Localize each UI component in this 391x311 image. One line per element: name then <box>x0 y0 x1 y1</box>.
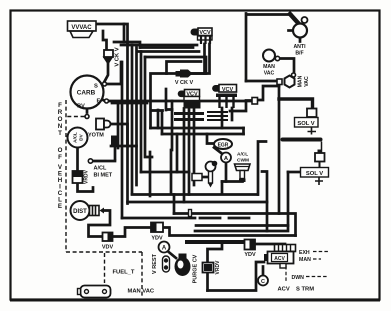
valve A/CL DV <box>68 128 88 148</box>
wire h y103 <box>112 102 147 105</box>
valve VRDV 2 <box>203 260 222 275</box>
check valve V CK V 2 <box>175 70 194 87</box>
svg-text:ACV: ACV <box>274 256 285 262</box>
restrictor V REST <box>152 253 170 274</box>
wire bundle v x118 <box>117 103 120 148</box>
wire vrdv2 top <box>208 243 223 263</box>
wire long h y194 <box>132 193 258 196</box>
svg-text:A/CL: A/CL <box>94 166 107 172</box>
fuel tank <box>78 286 111 298</box>
wire bar y110 b <box>168 108 173 111</box>
svg-text:VAC: VAC <box>304 76 310 87</box>
distributor DIST <box>71 201 105 220</box>
wire v x150 <box>149 152 152 196</box>
vacuum source MAN VAC 1 <box>263 50 280 77</box>
wire VVVAC down to check valve <box>103 31 107 50</box>
wire v x162 riser <box>161 112 164 134</box>
wire bundle v x141 <box>140 52 143 173</box>
svg-text:F: F <box>58 102 62 109</box>
label box VVVAC <box>68 21 97 38</box>
wire fitting drop <box>114 145 117 159</box>
fitting black tee <box>111 136 119 146</box>
valve VCV 2 <box>212 85 237 109</box>
svg-text:YOTM: YOTM <box>88 133 104 139</box>
label DWN STRM <box>278 275 315 293</box>
valve VCV 3 <box>174 90 204 120</box>
svg-text:VVVAC: VVVAC <box>71 25 92 31</box>
svg-text:EXH: EXH <box>299 250 310 256</box>
svg-text:VDV: VDV <box>102 245 114 251</box>
wire h y128 cwm supply <box>151 127 244 130</box>
wire h y57 to cv2 riser <box>145 57 206 74</box>
node S <box>103 82 107 86</box>
wire trunk x246 <box>246 14 291 82</box>
svg-text:A/CL: A/CL <box>73 132 78 143</box>
dashed exh man lines <box>286 252 330 284</box>
wire carb S stub <box>100 85 104 87</box>
svg-text:O: O <box>58 116 63 123</box>
wire elbow below fitting <box>230 101 252 112</box>
svg-text:A: A <box>162 246 167 252</box>
svg-text:SOL V: SOL V <box>297 121 314 127</box>
small tick rect <box>189 210 192 217</box>
svg-text:DIST: DIST <box>73 209 87 215</box>
svg-text:CARB: CARB <box>77 90 96 97</box>
wire h y134 egr supply <box>162 133 244 136</box>
egr valve EGR <box>214 139 232 149</box>
wire check valve to S node <box>105 64 109 82</box>
svg-text:EGR: EGR <box>218 142 229 148</box>
wire long h y225.5 <box>196 224 288 227</box>
valve YDV 2 <box>244 240 256 259</box>
dashed front-of-vehicle boundary <box>66 100 142 296</box>
svg-text:PURGE CV: PURGE CV <box>193 254 199 283</box>
wire v x184 <box>183 109 186 203</box>
wire vrdv1 bottom <box>78 183 94 192</box>
wire bundle v x132 <box>131 45 134 194</box>
svg-text:VRDV: VRDV <box>215 260 221 275</box>
wire h y181 <box>222 180 243 183</box>
node E <box>105 99 109 103</box>
wire nested left v x171 <box>170 150 173 194</box>
svg-text:MAN VAC: MAN VAC <box>128 289 155 295</box>
wire drop x124 <box>123 24 126 42</box>
label EXH MAN <box>299 250 311 263</box>
valve VDV 1 <box>102 233 114 251</box>
node BV <box>85 115 89 119</box>
wire long h y231 drain <box>195 172 288 231</box>
svg-text:E: E <box>97 99 101 105</box>
air control valve ACV <box>264 245 296 269</box>
wire long h y213.5 big U <box>174 214 296 236</box>
svg-text:BI MET: BI MET <box>94 173 113 179</box>
wire bar y110 a <box>152 109 163 112</box>
wire A to purge diagonal <box>168 251 177 258</box>
wire v x194 <box>193 109 196 186</box>
wire bottom run to acv <box>208 262 265 291</box>
svg-text:E: E <box>58 203 62 210</box>
wire anti bf diagonal <box>290 14 299 24</box>
carburetor CARB <box>71 76 104 110</box>
wire vcv1 prong down a <box>203 44 206 74</box>
wire h y218 left <box>122 217 195 220</box>
wire v x172 <box>171 101 174 150</box>
svg-text:MAN: MAN <box>299 257 311 263</box>
front of vehicle vertical text <box>58 102 63 210</box>
svg-text:YDV: YDV <box>151 236 163 242</box>
svg-text:FUEL_T: FUEL_T <box>113 270 135 276</box>
svg-text:S: S <box>94 84 98 90</box>
wire vcv2 prong down a <box>221 108 224 128</box>
wire carb E long manifold line <box>109 100 252 103</box>
wire bundle v x127.5 <box>126 45 129 204</box>
wire egr inlet <box>207 134 215 144</box>
wire v x189 <box>188 109 191 195</box>
wire v x267 <box>262 172 267 232</box>
check valve V CK V 1 <box>103 47 121 66</box>
wire vdv1 to ydv3 <box>113 228 152 237</box>
wire bar y218 b <box>229 217 249 220</box>
wire v x222 to long h <box>221 182 224 195</box>
svg-text:VCV: VCV <box>199 30 211 36</box>
svg-text:N: N <box>58 123 63 130</box>
wire A drop to h181 <box>225 163 228 182</box>
wire man vac1 to node <box>280 59 294 73</box>
solenoid SOL V 2 <box>301 150 329 186</box>
svg-text:T: T <box>58 130 62 137</box>
wire h y177 <box>202 176 209 179</box>
svg-text:C: C <box>261 279 265 285</box>
svg-text:BV: BV <box>77 104 85 110</box>
svg-text:DWN: DWN <box>292 275 305 281</box>
wire hooked v x257 <box>258 142 266 195</box>
svg-text:B/F: B/F <box>295 51 303 57</box>
wire v x174 link <box>173 195 176 214</box>
svg-text:ANTI: ANTI <box>293 44 306 50</box>
svg-text:DV: DV <box>79 133 84 140</box>
wire ydv2 to acv <box>255 244 285 248</box>
wire anti bf left stub <box>289 29 294 32</box>
svg-text:CWM: CWM <box>237 158 249 164</box>
small fitting rect <box>192 174 202 181</box>
svg-text:SOL V: SOL V <box>306 171 323 177</box>
svg-text:O: O <box>58 147 63 154</box>
svg-text:MAN: MAN <box>263 64 275 70</box>
wire stair h y45 <box>121 44 197 47</box>
vacuum source MAN VAC 2 <box>277 75 310 87</box>
wire v x166 <box>165 89 168 110</box>
wire carb bottom stub <box>86 109 89 113</box>
wire main right trunk vertical <box>278 85 281 214</box>
svg-text:F: F <box>58 154 62 161</box>
svg-text:V REST: V REST <box>152 253 158 274</box>
motor YOTM <box>88 119 111 139</box>
wire bundle v x136.5 <box>135 48 138 186</box>
motor A/CL CWM <box>235 152 251 183</box>
node below anti bf <box>292 73 296 77</box>
wire h y146 <box>111 145 137 148</box>
wire carb E stub <box>101 99 105 101</box>
svg-text:V CK V: V CK V <box>115 47 121 66</box>
svg-text:ACV: ACV <box>278 287 290 293</box>
pipe bar with drop <box>281 138 323 154</box>
wire v x177 <box>176 134 179 172</box>
wire h y172 <box>141 171 189 174</box>
wire yotm elbow <box>111 124 128 146</box>
svg-text:A/CL: A/CL <box>237 152 248 158</box>
wire dist advance <box>89 211 111 237</box>
svg-text:VCV: VCV <box>222 87 234 93</box>
wire vcv2 prong down b <box>231 108 234 120</box>
svg-text:V CK V: V CK V <box>175 80 194 86</box>
wire thick h y242 <box>187 240 245 244</box>
thermal valve ball <box>206 161 218 188</box>
wire stair h y47.5 <box>140 46 193 49</box>
wire anti bf bottom stub <box>299 38 302 42</box>
wire S node right riser <box>107 62 121 84</box>
wire C stub <box>262 267 265 276</box>
wire VVVAC top to bundle <box>96 24 128 45</box>
fitting barrel on E line <box>252 98 258 105</box>
wire cv2 left corner <box>151 74 177 129</box>
wire stair h y42 <box>114 42 140 48</box>
wire drain to sol v2 box <box>288 171 301 174</box>
wire bimet node right <box>93 160 115 163</box>
wire ydv3 staircase to ydv2 <box>163 228 296 236</box>
svg-text:S TRM: S TRM <box>296 287 314 293</box>
svg-text:VRDV: VRDV <box>84 169 90 184</box>
wire vcv1 prong down b <box>192 44 210 74</box>
wire bundle v x145 <box>145 57 152 157</box>
svg-text:MAN: MAN <box>298 75 304 87</box>
wire egr to A diagonal <box>214 148 223 155</box>
wire h y61.5 corner <box>167 62 202 74</box>
ladder bars near vcv2 <box>207 112 228 120</box>
wire cwm u-turn <box>242 128 245 134</box>
svg-text:R: R <box>58 109 63 116</box>
node A/CL BI MET <box>88 159 112 179</box>
wire v x158 riser <box>157 110 160 128</box>
svg-text:YDV: YDV <box>244 252 256 258</box>
svg-text:VAC: VAC <box>264 71 275 77</box>
wire long h y202 <box>128 201 268 204</box>
node A mid <box>221 153 231 163</box>
wire bundle v x122 <box>121 62 124 218</box>
wire E line riser to trunk <box>257 86 279 100</box>
purge valve PURGE CV <box>175 254 199 284</box>
node C <box>258 276 268 286</box>
wire acl dv stem <box>76 148 79 172</box>
valve ANTI B/F <box>293 17 308 57</box>
solenoid SOL V 1 <box>295 109 319 135</box>
wire sol v1 feed <box>279 99 313 108</box>
node A bottom <box>159 242 170 253</box>
valve VCV 1 <box>191 28 213 44</box>
wire stair h y51.5 <box>137 50 199 53</box>
wire bar y218 a <box>200 217 220 220</box>
valve YDV 3 <box>151 223 163 242</box>
wire vrdv2 bottom <box>206 273 209 291</box>
wire trunk to man vac 2 <box>246 80 277 83</box>
valve VRDV 1 <box>73 169 90 184</box>
